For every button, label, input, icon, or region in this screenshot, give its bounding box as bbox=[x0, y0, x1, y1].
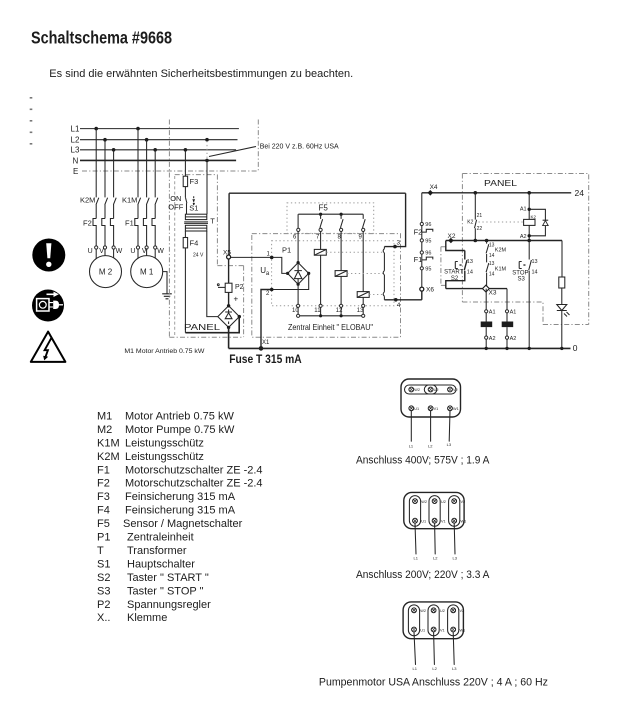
svg-text:Spannungsregler: Spannungsregler bbox=[127, 599, 211, 611]
svg-text:L1: L1 bbox=[414, 556, 419, 561]
svg-text:L2: L2 bbox=[71, 136, 80, 145]
svg-text:X5: X5 bbox=[223, 250, 231, 257]
svg-text:X2: X2 bbox=[448, 233, 456, 240]
svg-text:V2: V2 bbox=[460, 609, 465, 613]
svg-text:N: N bbox=[73, 156, 79, 165]
svg-text:F1: F1 bbox=[97, 464, 110, 476]
svg-text:F3: F3 bbox=[97, 491, 110, 503]
svg-text:K2M: K2M bbox=[80, 196, 95, 205]
svg-text:U2: U2 bbox=[441, 500, 446, 504]
svg-text:F3: F3 bbox=[190, 177, 199, 186]
svg-text:Leistungsschütz: Leistungsschütz bbox=[125, 451, 204, 463]
svg-text:Schaltschema #9668: Schaltschema #9668 bbox=[31, 28, 172, 48]
svg-text:U2: U2 bbox=[434, 388, 439, 392]
svg-text:S2: S2 bbox=[97, 572, 110, 584]
svg-text:T: T bbox=[97, 545, 104, 557]
svg-text:14: 14 bbox=[489, 272, 495, 278]
svg-text:F4: F4 bbox=[97, 505, 110, 517]
svg-text:24: 24 bbox=[575, 188, 585, 198]
svg-text:U1: U1 bbox=[420, 629, 425, 633]
svg-text:Transformer: Transformer bbox=[127, 545, 187, 557]
svg-text:Motor Antrieb 0.75 kW: Motor Antrieb 0.75 kW bbox=[125, 411, 234, 423]
svg-text:Feinsicherung 315 mA: Feinsicherung 315 mA bbox=[125, 491, 236, 503]
svg-text:14: 14 bbox=[489, 253, 495, 259]
svg-text:K2M: K2M bbox=[495, 248, 507, 254]
svg-text:V2: V2 bbox=[461, 500, 466, 504]
svg-text:22: 22 bbox=[477, 226, 483, 232]
svg-text:P1: P1 bbox=[282, 246, 291, 255]
svg-text:12: 12 bbox=[336, 308, 343, 314]
svg-text:V1: V1 bbox=[434, 407, 439, 411]
svg-text:F2: F2 bbox=[414, 228, 423, 237]
svg-text:V1: V1 bbox=[441, 520, 446, 524]
svg-text:14: 14 bbox=[467, 269, 473, 275]
svg-text:E: E bbox=[73, 167, 78, 176]
svg-text:Zentraleinheit: Zentraleinheit bbox=[127, 532, 194, 544]
svg-text:K1M: K1M bbox=[482, 322, 491, 327]
svg-text:K2M: K2M bbox=[503, 322, 512, 327]
svg-text:L3: L3 bbox=[452, 666, 457, 671]
svg-text:PANEL: PANEL bbox=[184, 322, 220, 332]
svg-text:STOP: STOP bbox=[512, 270, 528, 276]
svg-text:A1: A1 bbox=[510, 310, 517, 316]
svg-text:F1: F1 bbox=[125, 219, 134, 228]
svg-text:13: 13 bbox=[532, 259, 538, 265]
svg-text:Taster " STOP ": Taster " STOP " bbox=[127, 585, 204, 597]
svg-text:S1: S1 bbox=[97, 558, 110, 570]
svg-text:Motorschutzschalter ZE -2.4: Motorschutzschalter ZE -2.4 bbox=[125, 478, 263, 490]
svg-text:L3: L3 bbox=[71, 146, 80, 155]
svg-text:M1: M1 bbox=[97, 411, 112, 423]
svg-text:F2: F2 bbox=[83, 219, 92, 228]
svg-text:W2: W2 bbox=[414, 388, 420, 392]
svg-text:Motor Pumpe 0.75 kW: Motor Pumpe 0.75 kW bbox=[125, 424, 235, 436]
svg-text:S3: S3 bbox=[97, 585, 110, 597]
svg-text:L3: L3 bbox=[447, 442, 452, 447]
svg-text:96: 96 bbox=[425, 222, 431, 228]
svg-text:96: 96 bbox=[425, 251, 431, 257]
svg-text:F1: F1 bbox=[414, 255, 423, 264]
svg-text:F5: F5 bbox=[319, 204, 329, 213]
svg-text:START: START bbox=[444, 269, 463, 275]
svg-text:Taster " START ": Taster " START " bbox=[127, 572, 209, 584]
svg-text:Feinsicherung 315 mA: Feinsicherung 315 mA bbox=[125, 505, 236, 517]
svg-text:W: W bbox=[116, 248, 123, 255]
svg-text:W1: W1 bbox=[453, 407, 459, 411]
svg-text:W2: W2 bbox=[420, 609, 426, 613]
svg-text:Fuse T 315 mA: Fuse T 315 mA bbox=[229, 352, 302, 366]
svg-text:Pumpenmotor USA Anschluss 220: Pumpenmotor USA Anschluss 220V ; 4 A ; 6… bbox=[319, 676, 548, 688]
svg-text:A2: A2 bbox=[489, 336, 496, 342]
svg-text:X..: X.. bbox=[97, 612, 110, 624]
svg-text:21: 21 bbox=[477, 213, 483, 219]
svg-text:A2: A2 bbox=[520, 234, 527, 240]
svg-text:M 1: M 1 bbox=[140, 267, 154, 276]
svg-text:U: U bbox=[88, 248, 93, 255]
svg-text:F2: F2 bbox=[97, 478, 110, 490]
svg-text:K2M: K2M bbox=[97, 451, 120, 463]
svg-text:W: W bbox=[157, 248, 164, 255]
svg-text:S1: S1 bbox=[189, 204, 198, 213]
svg-text:PANEL: PANEL bbox=[484, 178, 517, 188]
svg-text:V: V bbox=[142, 248, 147, 255]
svg-text:S3: S3 bbox=[518, 277, 526, 283]
svg-text:U2: U2 bbox=[440, 609, 445, 613]
svg-text:U: U bbox=[130, 248, 135, 255]
svg-text:OFF: OFF bbox=[168, 202, 183, 211]
svg-text:F4: F4 bbox=[190, 239, 199, 248]
svg-text:P2: P2 bbox=[97, 599, 110, 611]
svg-text:L2: L2 bbox=[433, 556, 438, 561]
svg-text:V: V bbox=[99, 248, 104, 255]
svg-text:K1M: K1M bbox=[97, 437, 120, 449]
svg-text:A2: A2 bbox=[510, 336, 517, 342]
svg-text:L1: L1 bbox=[409, 444, 414, 449]
svg-text:13: 13 bbox=[467, 259, 473, 265]
svg-text:Motorschutzschalter ZE -2.4: Motorschutzschalter ZE -2.4 bbox=[125, 464, 263, 476]
svg-text:P1: P1 bbox=[97, 532, 110, 544]
svg-text:L1: L1 bbox=[413, 666, 418, 671]
svg-text:M2: M2 bbox=[97, 424, 112, 436]
svg-text:K1M: K1M bbox=[495, 266, 507, 272]
svg-text:24 V: 24 V bbox=[193, 252, 204, 258]
svg-text:Bei 220 V z.B. 60Hz USA: Bei 220 V z.B. 60Hz USA bbox=[260, 142, 339, 151]
svg-text:A1: A1 bbox=[520, 207, 527, 213]
svg-text:4: 4 bbox=[397, 302, 401, 309]
svg-text:K2: K2 bbox=[531, 215, 537, 220]
svg-text:14: 14 bbox=[532, 269, 538, 275]
svg-text:V1: V1 bbox=[440, 629, 445, 633]
svg-text:U1: U1 bbox=[414, 407, 419, 411]
svg-text:L3: L3 bbox=[453, 556, 458, 561]
svg-text:K2: K2 bbox=[467, 220, 473, 226]
svg-text:W2: W2 bbox=[421, 500, 427, 504]
svg-text:Es sind die erwähnten Sicherhe: Es sind die erwähnten Sicherheitsbestimm… bbox=[49, 68, 353, 80]
svg-text:L2: L2 bbox=[432, 666, 437, 671]
svg-text:3: 3 bbox=[397, 240, 401, 247]
svg-text:Sensor / Magnetschalter: Sensor / Magnetschalter bbox=[123, 518, 243, 530]
svg-text:X3: X3 bbox=[489, 290, 497, 297]
svg-text:Leistungsschütz: Leistungsschütz bbox=[125, 437, 204, 449]
svg-text:Anschluss 400V; 575V ; 1.9 A: Anschluss 400V; 575V ; 1.9 A bbox=[356, 455, 490, 467]
svg-text:U1: U1 bbox=[421, 520, 426, 524]
svg-text:L1: L1 bbox=[71, 125, 80, 134]
svg-text:S2: S2 bbox=[451, 276, 459, 282]
svg-text:+: + bbox=[234, 295, 239, 304]
svg-text:T: T bbox=[210, 217, 215, 226]
svg-text:Klemme: Klemme bbox=[127, 612, 167, 624]
svg-text:Hauptschalter: Hauptschalter bbox=[127, 558, 195, 570]
svg-text:V2: V2 bbox=[453, 388, 458, 392]
svg-text:M1 Motor Antrieb 0.75 kW: M1 Motor Antrieb 0.75 kW bbox=[124, 348, 204, 355]
svg-text:X1: X1 bbox=[262, 340, 270, 346]
svg-text:W1: W1 bbox=[461, 520, 467, 524]
svg-text:95: 95 bbox=[425, 266, 431, 272]
svg-text:M 2: M 2 bbox=[99, 267, 113, 276]
svg-text:Anschluss 200V; 220V ; 3.3 A: Anschluss 200V; 220V ; 3.3 A bbox=[356, 569, 490, 581]
svg-text:A1: A1 bbox=[489, 310, 496, 316]
svg-text:0: 0 bbox=[573, 343, 578, 353]
svg-text:P2: P2 bbox=[235, 284, 244, 291]
svg-text:X6: X6 bbox=[426, 287, 434, 294]
svg-text:X4: X4 bbox=[430, 184, 438, 191]
svg-text:K1M: K1M bbox=[122, 196, 137, 205]
svg-text:L2: L2 bbox=[428, 444, 433, 449]
svg-text:95: 95 bbox=[425, 239, 431, 245]
svg-text:Zentral Einheit " ELOBAU": Zentral Einheit " ELOBAU" bbox=[288, 322, 373, 332]
svg-text:F5: F5 bbox=[97, 518, 110, 530]
svg-text:W1: W1 bbox=[460, 629, 466, 633]
